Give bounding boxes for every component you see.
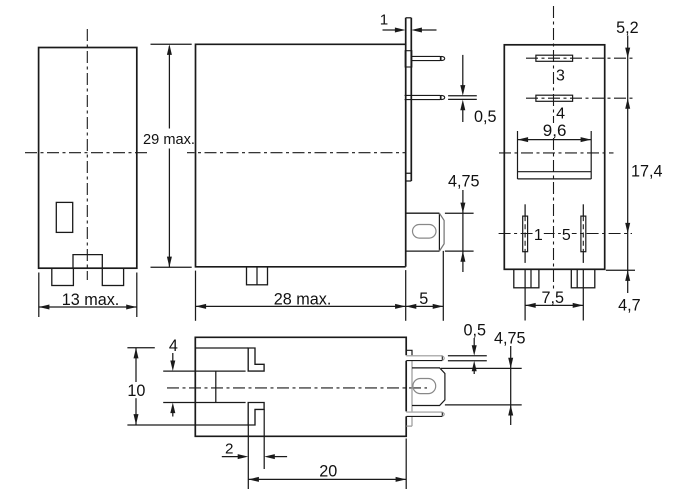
view D latch hole (413, 379, 436, 394)
dimension 0,5 (view D) (448, 338, 487, 374)
view D inner line 2 (163, 370, 245, 372)
view A bottom center boss (73, 255, 102, 269)
dimension 2 (222, 409, 287, 489)
white gaps for labels 1 and 5 (533, 227, 544, 243)
view A body (39, 48, 137, 269)
dimension 20 (248, 439, 406, 490)
terminal 1 slot (523, 216, 528, 252)
body bottom extension line (606, 269, 635, 271)
view B flange top cap (406, 17, 412, 19)
view B pin base block (405, 51, 412, 67)
horizontal centerline through views A and B (25, 152, 147, 154)
dimension 10 (134, 348, 139, 425)
svg-text:1: 1 (534, 227, 543, 244)
view B latch block (406, 213, 440, 251)
view D horizontal centerline (167, 387, 427, 389)
view D flange (grey) (406, 350, 412, 355)
dimension 29 max. (151, 44, 192, 267)
view D inner bottom line (127, 424, 248, 426)
svg-text:4,7: 4,7 (618, 297, 641, 315)
terminal 4 centerline (526, 97, 635, 99)
view C left foot (514, 269, 539, 288)
view B lower pin (405, 95, 441, 99)
view D body (195, 337, 406, 436)
svg-text:5,2: 5,2 (616, 19, 639, 37)
svg-text:17,4: 17,4 (631, 163, 663, 181)
svg-text:4,75: 4,75 (494, 330, 526, 348)
terminals 1-5 centerline (499, 233, 632, 235)
view B flange rear line (410, 18, 412, 181)
view A left foot (52, 268, 74, 285)
dimension 5 (flange offset) (406, 251, 444, 321)
svg-text:5: 5 (419, 290, 428, 308)
dimension 13 max. (39, 273, 137, 318)
right dimension column: 5,2 / 17,4 / 4,7 (606, 36, 635, 294)
dimension 7,5 (525, 269, 583, 320)
svg-text:4,75: 4,75 (448, 173, 480, 191)
view D inner vertical (215, 371, 217, 402)
view B flange front line (405, 18, 407, 267)
svg-text:10: 10 (127, 382, 145, 400)
terminal 4 slot (536, 95, 573, 101)
view D top extension of 10 (127, 347, 154, 349)
view C center slot box (518, 131, 592, 179)
view A inner window (56, 202, 72, 232)
view D lower pin (406, 411, 442, 413)
svg-text:29 max.: 29 max. (143, 132, 195, 148)
view B latch chamfer (439, 213, 444, 251)
view C horizontal centerline (499, 152, 614, 154)
view C right foot (571, 269, 595, 288)
svg-text:1: 1 (380, 12, 388, 29)
svg-text:4: 4 (169, 337, 178, 355)
view A vertical centerline (86, 29, 88, 280)
svg-text:3: 3 (556, 67, 565, 84)
terminal 3 centerline (526, 57, 635, 59)
view D upper pin (406, 355, 442, 357)
dimension 4 (170, 353, 175, 417)
dimension 9,6 (518, 137, 592, 142)
view D latch block (412, 368, 445, 406)
dimension 4,75 (view D) (441, 346, 522, 425)
dimension 0,5 (pin thickness, view B) (448, 55, 477, 122)
terminal 3 slot (536, 55, 573, 61)
dimension 1 (flange thickness) (383, 28, 437, 33)
svg-text:7,5: 7,5 (542, 289, 565, 307)
view D inner line 3 (163, 402, 245, 404)
terminal 5 slot (581, 216, 586, 252)
dimension 28 max. (196, 270, 406, 321)
view B latch hole (413, 225, 437, 239)
view C body (504, 45, 604, 269)
svg-text:5: 5 (562, 227, 571, 244)
svg-text:0,5: 0,5 (464, 321, 487, 339)
view C vertical centerline (553, 6, 555, 292)
view B bottom tab (247, 267, 268, 285)
svg-text:28 max.: 28 max. (274, 290, 332, 308)
svg-text:20: 20 (319, 462, 337, 480)
view B upper pin (411, 56, 440, 60)
view A right foot (102, 268, 123, 285)
view B body (196, 44, 406, 266)
svg-text:13 max.: 13 max. (62, 291, 120, 309)
svg-text:0,5: 0,5 (474, 108, 497, 126)
dimension 4,75 (view B) (445, 190, 474, 272)
view D upper hook (248, 348, 264, 371)
view B flange lower block (406, 173, 412, 181)
view D inner top line (195, 347, 248, 349)
view D lower hook (248, 403, 264, 426)
svg-text:9,6: 9,6 (543, 121, 567, 140)
svg-text:2: 2 (225, 440, 233, 457)
